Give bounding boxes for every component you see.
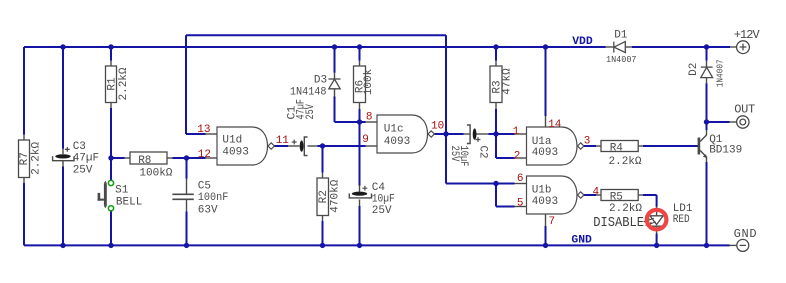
- svg-text:GND: GND: [734, 227, 757, 241]
- svg-text:10µF: 10µF: [372, 194, 395, 206]
- svg-text:C5: C5: [198, 181, 211, 193]
- svg-text:4093: 4093: [384, 136, 410, 148]
- svg-text:BELL: BELL: [116, 196, 142, 208]
- svg-text:1N4007: 1N4007: [606, 55, 637, 65]
- svg-text:2: 2: [514, 151, 521, 163]
- svg-text:470kΩ: 470kΩ: [329, 179, 341, 212]
- svg-text:R8: R8: [138, 155, 151, 167]
- svg-text:13: 13: [197, 124, 210, 136]
- svg-text:9: 9: [362, 134, 369, 146]
- svg-text:R1: R1: [107, 77, 119, 91]
- svg-text:25V: 25V: [448, 146, 460, 162]
- svg-text:4093: 4093: [532, 147, 558, 159]
- svg-text:100k: 100k: [363, 68, 375, 95]
- svg-text:10: 10: [431, 121, 444, 133]
- svg-text:2.2kΩ: 2.2kΩ: [118, 67, 130, 100]
- svg-text:RED: RED: [673, 214, 690, 226]
- svg-text:100kΩ: 100kΩ: [139, 167, 172, 179]
- svg-text:VDD: VDD: [572, 36, 593, 48]
- svg-text:1N4148: 1N4148: [290, 87, 327, 99]
- svg-text:1: 1: [513, 126, 520, 138]
- svg-text:C3: C3: [73, 141, 86, 153]
- svg-text:1N4007: 1N4007: [715, 59, 725, 87]
- svg-text:R2: R2: [318, 190, 330, 203]
- svg-text:4: 4: [593, 186, 600, 198]
- svg-text:DISABLE: DISABLE: [593, 216, 644, 231]
- svg-text:D1: D1: [614, 30, 628, 42]
- svg-text:5: 5: [517, 198, 524, 210]
- svg-text:D3: D3: [314, 74, 327, 86]
- svg-text:25V: 25V: [372, 205, 392, 217]
- svg-text:OUT: OUT: [734, 102, 755, 116]
- svg-text:63V: 63V: [198, 204, 218, 216]
- svg-text:U1b: U1b: [532, 184, 552, 196]
- svg-text:BD139: BD139: [709, 145, 742, 157]
- svg-text:R4: R4: [610, 142, 624, 154]
- svg-text:U1c: U1c: [384, 123, 404, 135]
- svg-text:2.2kΩ: 2.2kΩ: [30, 142, 42, 175]
- svg-text:2.2kΩ: 2.2kΩ: [609, 203, 642, 215]
- svg-text:C2: C2: [476, 146, 488, 159]
- svg-text:25V: 25V: [305, 104, 317, 120]
- svg-text:R7: R7: [19, 152, 31, 165]
- svg-text:4093: 4093: [222, 146, 248, 158]
- svg-text:C4: C4: [372, 182, 386, 194]
- svg-text:D2: D2: [688, 63, 700, 76]
- svg-text:8: 8: [366, 112, 373, 124]
- svg-text:25V: 25V: [73, 164, 93, 176]
- svg-text:3: 3: [584, 136, 591, 148]
- svg-text:6: 6: [517, 173, 524, 185]
- svg-text:S1: S1: [115, 185, 129, 197]
- svg-text:2.2kΩ: 2.2kΩ: [609, 156, 642, 168]
- svg-text:4093: 4093: [532, 196, 558, 208]
- svg-text:+12V: +12V: [734, 28, 761, 42]
- svg-text:47µF: 47µF: [73, 153, 99, 165]
- svg-text:47kΩ: 47kΩ: [502, 68, 514, 95]
- svg-text:12: 12: [198, 149, 211, 161]
- svg-text:R5: R5: [610, 191, 623, 203]
- svg-text:14: 14: [548, 119, 562, 131]
- svg-text:100nF: 100nF: [198, 192, 229, 204]
- svg-text:7: 7: [549, 216, 556, 228]
- svg-text:U1d: U1d: [222, 134, 242, 146]
- svg-text:GND: GND: [571, 234, 592, 246]
- svg-text:11: 11: [276, 135, 290, 147]
